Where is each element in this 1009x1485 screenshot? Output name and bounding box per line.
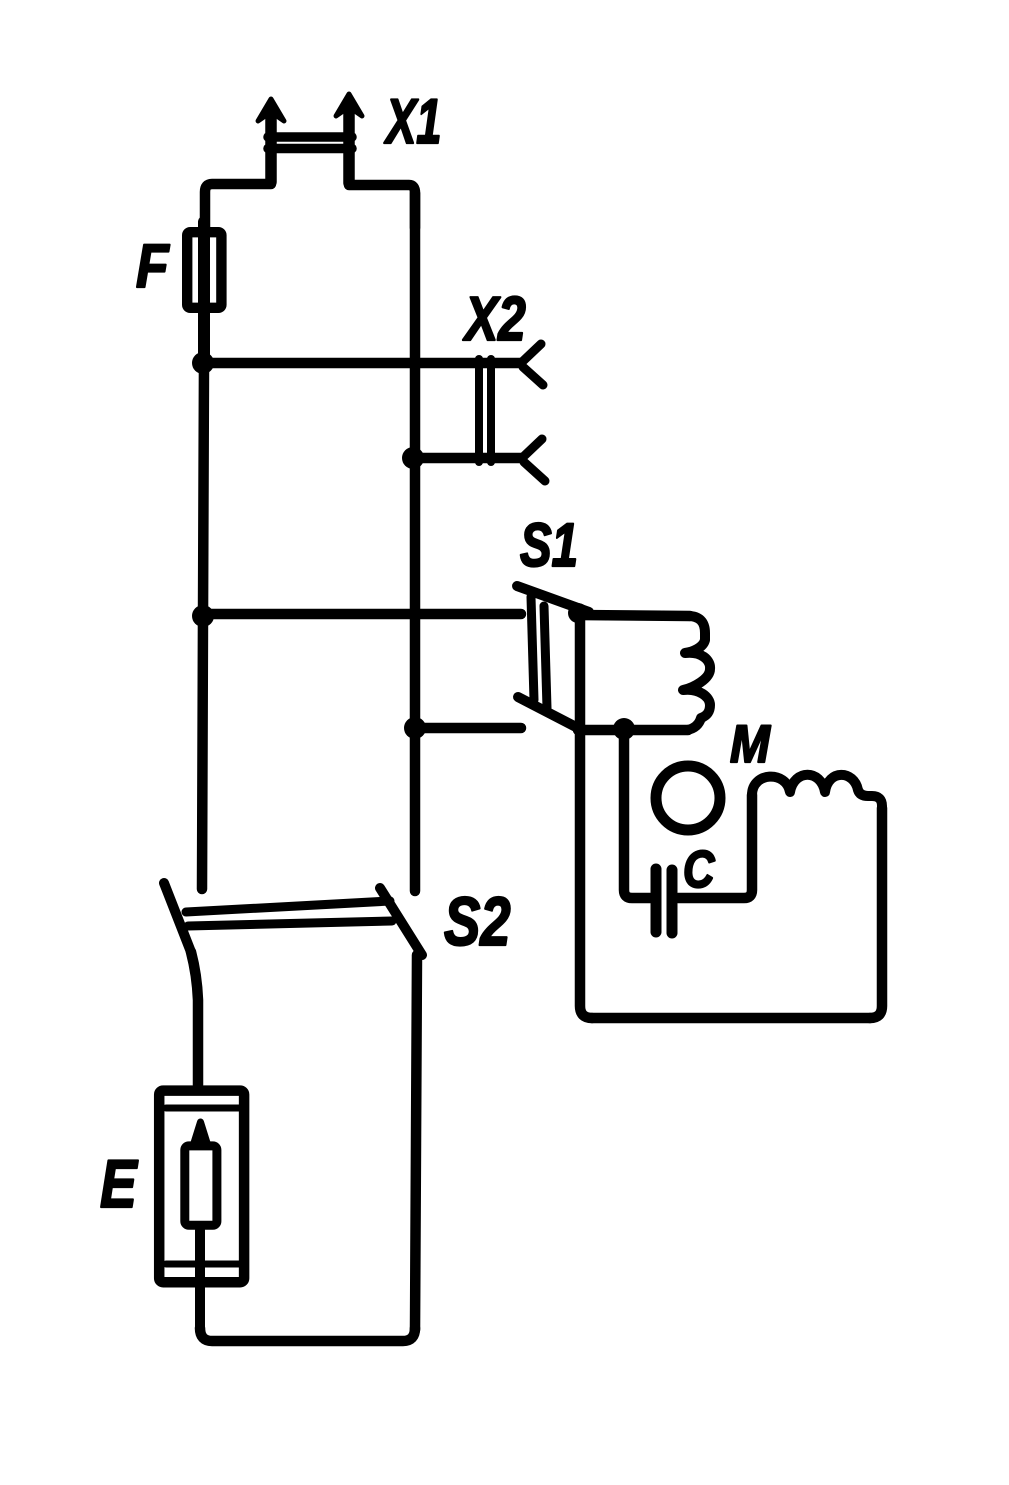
svg-text:M: M <box>730 714 771 774</box>
switch S2 left contact tick <box>164 883 191 952</box>
connector X1 plug right prong shaft <box>343 111 355 183</box>
wire from capacitor right to aux winding <box>678 795 752 898</box>
switch S2 right contact tick <box>380 888 422 955</box>
connector X1 plug left prong shaft <box>265 116 277 182</box>
switch S1 bottom contact tick <box>518 697 576 727</box>
element E inner bottom line <box>166 1261 239 1268</box>
wire outer loop bottom <box>592 1013 870 1024</box>
switch S2 blade line 2 <box>188 921 392 926</box>
wire from X1 left prong stepping left <box>205 184 271 228</box>
right bus wire from X1 down to S2 <box>410 193 421 891</box>
svg-text:S1: S1 <box>520 511 578 579</box>
svg-text:E: E <box>100 1147 138 1223</box>
wire capacitor branch from bottom wire down <box>624 729 650 898</box>
element E inner body <box>185 1146 217 1225</box>
node junction dot on right bus for X2 bottom wire <box>402 447 424 469</box>
wire from S2 left down to element E <box>191 952 198 1085</box>
switch S2 blade line 1 <box>186 901 390 912</box>
element E inner top line <box>166 1105 239 1112</box>
connector X2 body bar 2 <box>487 359 495 462</box>
wire outer loop right side up <box>870 808 882 1018</box>
connector X1 plug right prong arrowhead <box>336 94 362 116</box>
switch S1 blade line 1 <box>531 597 534 700</box>
wire S1 top stub <box>203 609 521 620</box>
inductor winding (two humps) between switch outputs <box>683 616 710 730</box>
node junction dot right bus at S1 bottom stub <box>404 717 426 739</box>
wire S1 bottom stub <box>415 723 521 734</box>
left bus wire from S1 tap down to S2 <box>202 616 203 889</box>
wire from X1 right prong stepping right <box>349 185 415 228</box>
node junction blob S1 top right <box>568 603 588 623</box>
wire X2 bottom feed <box>413 453 522 464</box>
capacitor C left plate <box>651 869 662 932</box>
node junction dot at fuse output / X2 top wire <box>192 352 214 374</box>
connector X1 plug body upper bar <box>268 132 352 142</box>
connector X2 body bar 1 <box>475 359 483 462</box>
element E top contact point <box>193 1122 208 1146</box>
node junction dot on bottom wire to capacitor branch <box>613 718 635 740</box>
wire X2 top feed <box>203 358 521 369</box>
wire from S2 right down to bottom <box>415 955 417 1330</box>
wire bottom return <box>200 1328 415 1341</box>
switch S1 blade line 2 <box>544 606 547 708</box>
wire S1 bottom output <box>578 725 688 736</box>
wire outer loop left side down <box>580 611 592 1018</box>
svg-text:C: C <box>683 841 716 899</box>
wire element E bottom lead <box>195 1230 205 1330</box>
connector X2 upper contact fork <box>521 344 543 385</box>
svg-text:X2: X2 <box>462 284 525 354</box>
element E outer case <box>159 1091 244 1283</box>
fuse F body <box>187 232 221 308</box>
connector X2 lower contact fork <box>522 439 545 481</box>
switch S1 top contact tick <box>517 586 589 612</box>
capacitor C right plate <box>667 870 678 933</box>
svg-text:F: F <box>136 233 170 301</box>
node junction dot left bus at S1 top stub <box>192 605 214 627</box>
connector X1 plug body lower bar <box>268 144 352 154</box>
inductor aux winding (three humps) <box>752 775 882 806</box>
wire S1 top output to winding <box>578 615 690 616</box>
left bus wire from fuse to S1 tap <box>203 363 204 616</box>
svg-text:S2: S2 <box>444 884 511 961</box>
wire through fuse F (left bus upper) <box>198 222 210 363</box>
svg-text:X1: X1 <box>384 86 442 157</box>
motor M circle <box>656 766 720 830</box>
connector X1 plug left prong arrowhead <box>258 99 284 121</box>
